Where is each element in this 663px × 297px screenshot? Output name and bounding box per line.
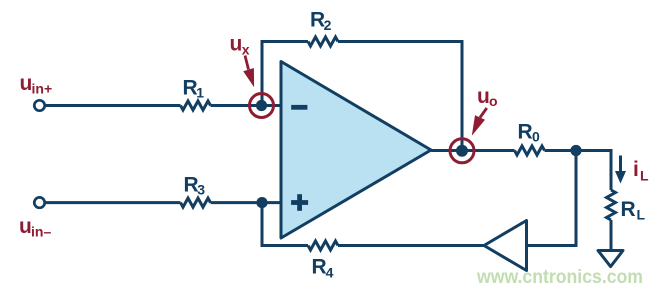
- resistor R3: [181, 198, 211, 207]
- terminal u_in+: [34, 100, 44, 110]
- label R3: [184, 174, 206, 198]
- node u_o: [456, 145, 468, 157]
- svg-text:www.cntronics.com: www.cntronics.com: [476, 266, 643, 288]
- svg-text:in–: in–: [31, 224, 51, 240]
- svg-text:0: 0: [532, 129, 540, 145]
- wire op-amp output to R0: [431, 149, 515, 152]
- arrow from label u_x to node: [243, 56, 254, 88]
- node junction after R0: [570, 145, 581, 156]
- wire R3 to op-amp non-inverting input: [211, 201, 282, 204]
- node u_o red ring marker: [450, 139, 474, 163]
- label u_in+: [20, 72, 53, 97]
- svg-text:x: x: [242, 41, 250, 57]
- svg-text:i: i: [633, 158, 639, 181]
- label R2: [310, 9, 332, 33]
- label R1: [183, 77, 205, 101]
- svg-text:u: u: [20, 72, 33, 95]
- svg-text:R: R: [518, 121, 533, 144]
- arrow from label u_o to node: [472, 108, 487, 136]
- op-amp U1: [281, 62, 431, 239]
- wire R0 to load branch: [545, 151, 612, 191]
- wire non-inverting node down to R4: [262, 203, 308, 246]
- current arrow i_L: [615, 156, 626, 184]
- wire u_in- to R3: [45, 201, 181, 204]
- svg-text:R: R: [312, 255, 327, 278]
- svg-text:in+: in+: [32, 81, 53, 97]
- svg-text:u: u: [19, 215, 32, 238]
- label R0: [518, 121, 541, 145]
- node u_x: [256, 100, 267, 111]
- wire u_in+ to R1: [45, 104, 181, 107]
- label u_in-: [19, 215, 51, 240]
- label RL: [621, 198, 646, 223]
- wire node u_x up to R2: [262, 42, 308, 106]
- svg-text:4: 4: [326, 265, 334, 281]
- wire R4 to buffer output: [338, 244, 484, 247]
- svg-text:R: R: [621, 198, 636, 221]
- label u_o: [477, 85, 498, 109]
- svg-text:u: u: [477, 85, 490, 108]
- svg-text:u: u: [230, 33, 243, 56]
- terminal u_in-: [34, 197, 44, 207]
- wire R2 down to output node: [338, 42, 462, 152]
- wire junction down to buffer input: [527, 151, 577, 246]
- svg-text:2: 2: [324, 17, 332, 33]
- wire RL to ground: [610, 220, 613, 250]
- op-amp inverting input pin (minus): [291, 105, 307, 110]
- svg-text:1: 1: [196, 85, 204, 101]
- resistor R4: [308, 241, 338, 250]
- buffer amplifier U2: [484, 221, 527, 271]
- node non-inverting input: [256, 197, 267, 208]
- svg-text:L: L: [640, 168, 649, 184]
- svg-text:L: L: [637, 207, 646, 223]
- label R4: [312, 255, 334, 280]
- resistor R1: [181, 101, 211, 110]
- svg-text:o: o: [489, 93, 498, 109]
- wire R1 to op-amp inverting input: [211, 104, 282, 107]
- resistor R0: [515, 146, 545, 155]
- label i_L: [633, 158, 649, 184]
- node u_x red ring marker: [250, 94, 274, 118]
- ground: [598, 251, 623, 267]
- resistor R2: [308, 37, 338, 46]
- svg-text:3: 3: [197, 182, 205, 198]
- resistor RL (load): [607, 190, 616, 220]
- label u_x: [230, 33, 250, 58]
- op-amp non-inverting input pin (plus): [291, 194, 308, 211]
